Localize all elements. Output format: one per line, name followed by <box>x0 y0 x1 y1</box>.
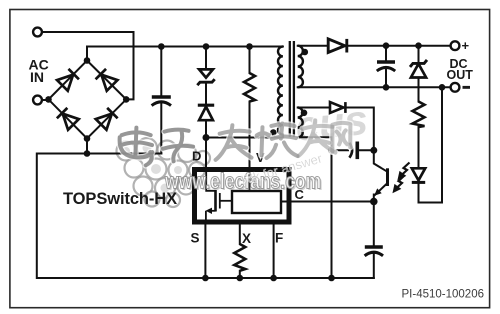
svg-text:X: X <box>242 231 251 246</box>
svg-text:IN: IN <box>30 69 44 85</box>
svg-text:+: + <box>462 38 470 53</box>
svg-text:TOPSwitch-HX: TOPSwitch-HX <box>63 190 177 208</box>
svg-text:PI-4510-100206: PI-4510-100206 <box>402 289 484 301</box>
svg-text:OUT: OUT <box>447 68 474 82</box>
svg-text:S: S <box>191 231 200 246</box>
svg-text:D: D <box>192 149 201 164</box>
svg-text:F: F <box>275 231 283 246</box>
